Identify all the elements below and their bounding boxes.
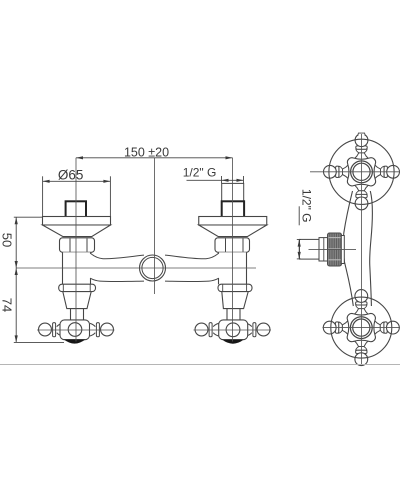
svg-text:1/2" G: 1/2" G (299, 189, 313, 223)
svg-text:Ø65: Ø65 (58, 167, 84, 182)
svg-text:50: 50 (0, 233, 15, 247)
svg-text:74: 74 (0, 298, 15, 312)
svg-text:150 ±20: 150 ±20 (124, 145, 169, 159)
svg-text:1/2" G: 1/2" G (183, 166, 217, 180)
